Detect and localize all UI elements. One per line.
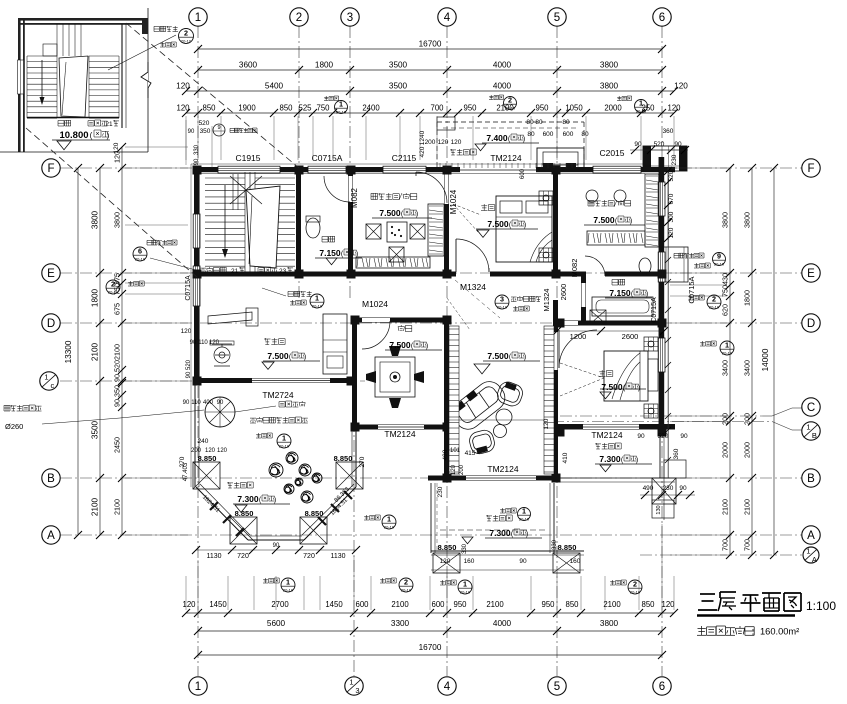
svg-text:600: 600 (520, 168, 526, 179)
dining door arc (362, 321, 390, 349)
bed 1 (496, 196, 552, 262)
svg-text:270: 270 (179, 456, 186, 467)
window left C0715A 2 (193, 266, 200, 306)
svg-text:600: 600 (431, 600, 445, 609)
svg-text:16700: 16700 (419, 643, 442, 652)
svg-text:3600: 3600 (239, 61, 258, 70)
svg-text:80: 80 (535, 119, 543, 126)
svg-text:3: 3 (500, 295, 504, 304)
bottom dimension detail row (186, 612, 674, 614)
svg-text:2000: 2000 (743, 442, 752, 458)
svg-text:1: 1 (195, 681, 201, 693)
svg-text:M1024: M1024 (449, 189, 458, 214)
svg-text:120: 120 (182, 600, 196, 609)
bedroom right wall V5 (553, 167, 558, 276)
svg-text:200: 200 (191, 448, 202, 454)
svg-text:750: 750 (316, 104, 330, 113)
svg-text:2: 2 (508, 96, 512, 105)
study chairs (366, 224, 381, 239)
svg-text:750: 750 (721, 285, 730, 297)
svg-text:1800: 1800 (91, 288, 100, 307)
svg-text:3800: 3800 (743, 212, 752, 228)
svg-text:850: 850 (641, 600, 655, 609)
svg-text:7.500: 7.500 (487, 219, 509, 229)
svg-text:330: 330 (194, 144, 200, 155)
svg-text:23: 23 (279, 268, 287, 275)
svg-text:90: 90 (637, 433, 645, 440)
corridor dashes (455, 280, 500, 318)
svg-text:90: 90 (113, 374, 122, 382)
svg-text:): ) (638, 385, 640, 392)
svg-text:3500: 3500 (389, 82, 408, 91)
svg-text:1: 1 (349, 678, 353, 687)
svg-text:3800: 3800 (721, 212, 730, 228)
exterior offset lines (191, 163, 643, 165)
bay sub dims (196, 549, 356, 551)
svg-text:): ) (426, 343, 428, 350)
living east wall V9 (553, 300, 558, 480)
washbasin box (590, 310, 606, 324)
svg-text:(: ( (90, 131, 93, 140)
plants terrace (269, 463, 283, 477)
svg-text:2100: 2100 (743, 499, 752, 515)
svg-text:B: B (47, 473, 55, 485)
svg-text:490: 490 (442, 449, 449, 460)
svg-text:20-10: 20-10 (384, 524, 395, 529)
bottom dimension total row (198, 654, 662, 656)
detail labels (58, 120, 71, 126)
svg-text:TM2724: TM2724 (262, 390, 293, 400)
center terrace boxes (433, 553, 460, 573)
left bubble cluster 2 (128, 281, 144, 286)
top axis circles (189, 8, 207, 26)
svg-text:1450: 1450 (325, 600, 343, 609)
svg-text:2: 2 (404, 578, 408, 587)
svg-text:3300: 3300 (391, 619, 410, 628)
svg-text:520: 520 (113, 360, 122, 372)
svg-text:E: E (47, 268, 55, 280)
svg-text:2100: 2100 (91, 497, 100, 516)
svg-text:7.500: 7.500 (601, 382, 623, 392)
bubble bathroom detail (495, 295, 509, 309)
bottom axis circles (189, 677, 207, 695)
right zone small boxes near B (652, 500, 674, 518)
svg-text:90: 90 (273, 543, 280, 549)
svg-text:TM2124: TM2124 (487, 464, 518, 474)
extra wall inner keylines F (194, 173, 645, 175)
bottom 详建施 clusters (440, 580, 456, 585)
svg-text:720: 720 (237, 553, 249, 560)
svg-text:): ) (523, 136, 525, 143)
svg-text:20-10: 20-10 (312, 303, 323, 308)
svg-text:850: 850 (565, 600, 579, 609)
door bedroom2 arc (559, 330, 597, 368)
right terrace edge (659, 433, 661, 478)
top dimension row spans (198, 69, 662, 71)
bathtub (592, 297, 653, 316)
svg-text:600: 600 (355, 600, 369, 609)
svg-text:3800: 3800 (600, 61, 619, 70)
svg-text:D: D (807, 318, 815, 330)
svg-text:7.300: 7.300 (599, 454, 621, 464)
svg-text:): ) (524, 354, 526, 361)
svg-text:2100: 2100 (91, 342, 100, 361)
svg-text:B: B (807, 473, 815, 485)
svg-text:20-10: 20-10 (630, 589, 641, 594)
toilet room label 7.150 (322, 236, 335, 242)
right window 1 (658, 182, 665, 216)
svg-text:M1324: M1324 (460, 282, 486, 292)
svg-text:1800: 1800 (315, 61, 334, 70)
bubbles left terrace (256, 433, 272, 438)
stools (586, 190, 598, 202)
svg-text:20-10: 20-10 (401, 587, 412, 592)
svg-text:4000: 4000 (493, 61, 512, 70)
detail arrow (41, 60, 43, 102)
right dimension columns (729, 168, 731, 555)
svg-text:1800: 1800 (743, 290, 752, 306)
plan stair upper X cross (230, 176, 262, 204)
svg-text:20-10: 20-10 (636, 108, 647, 113)
svg-text:C2115: C2115 (392, 153, 417, 163)
bathroom label (612, 279, 625, 285)
detail cut polygon (59, 56, 88, 117)
study table (387, 222, 407, 242)
svg-text:2: 2 (296, 12, 302, 24)
svg-text:1: 1 (387, 515, 391, 524)
svg-text:3400: 3400 (743, 360, 752, 376)
svg-text:F: F (47, 163, 54, 175)
svg-text:M1324: M1324 (542, 289, 551, 312)
svg-text:TM2124: TM2124 (591, 430, 622, 440)
octagon left slant (196, 487, 248, 540)
bay window on F axis4-5 (537, 148, 584, 169)
terrace labels (227, 482, 253, 488)
svg-text:240: 240 (198, 438, 209, 445)
svg-text:): ) (107, 131, 110, 140)
svg-text:1: 1 (806, 547, 810, 556)
svg-text:2000: 2000 (721, 442, 730, 458)
svg-text:7.500: 7.500 (593, 215, 615, 225)
window left C0715A (193, 214, 200, 248)
svg-text:8.850: 8.850 (558, 543, 577, 552)
toilet-study wall V3 (348, 167, 353, 276)
detail inner wall right (121, 24, 123, 128)
svg-text:c: c (51, 381, 55, 390)
svg-text:B: B (812, 431, 817, 440)
right terrace B edge (560, 477, 675, 479)
dining chairs dark (389, 346, 401, 356)
svg-text:C0715A: C0715A (312, 153, 343, 163)
svg-text:120: 120 (667, 104, 681, 113)
svg-text:4: 4 (444, 681, 451, 693)
svg-text:20-10: 20-10 (722, 350, 733, 355)
title big: san ceng ping mian tu (700, 593, 715, 595)
svg-text:950: 950 (535, 104, 549, 113)
left bubble cluster lightning (147, 240, 177, 245)
svg-text:M082: M082 (350, 187, 359, 208)
svg-text:200: 200 (743, 413, 752, 425)
svg-text:2100: 2100 (486, 600, 504, 609)
svg-text:3: 3 (355, 686, 359, 695)
bedroom2 labels (599, 370, 613, 377)
svg-text:21: 21 (231, 268, 239, 275)
sofa set (447, 376, 525, 455)
dashed reference diagonals (126, 23, 299, 168)
bubble stair detail1 (288, 291, 312, 297)
dining table (375, 357, 415, 397)
svg-text:C0715A: C0715A (651, 297, 658, 323)
svg-text:120: 120 (438, 139, 449, 146)
wardrobe strip (428, 204, 444, 256)
treadmill horizontal (208, 308, 258, 326)
wall 1/B right terrace H6 (557, 424, 675, 430)
area note (697, 626, 754, 635)
svg-text:520: 520 (654, 141, 665, 148)
stair-toilet wall V2 (296, 167, 301, 276)
stair labels (200, 267, 226, 273)
dining left wall V7 (352, 318, 357, 430)
svg-text:TM2124: TM2124 (490, 153, 521, 163)
svg-text:8.850: 8.850 (438, 543, 457, 552)
decorative column note (4, 405, 42, 411)
svg-text:160.00m²: 160.00m² (760, 627, 799, 637)
corridor fan dash (447, 298, 470, 330)
svg-text:1: 1 (195, 12, 201, 24)
top dimension detail row (186, 112, 674, 114)
svg-text:80: 80 (581, 131, 589, 138)
svg-text:4: 4 (444, 12, 451, 24)
living elevation triangle (474, 364, 490, 374)
svg-text:1: 1 (463, 580, 467, 589)
svg-text:2450: 2450 (113, 437, 122, 453)
bookshelf (356, 257, 430, 268)
svg-text:7.150: 7.150 (319, 248, 341, 258)
svg-text:675: 675 (113, 303, 122, 315)
svg-text:A: A (807, 530, 815, 542)
svg-text:1: 1 (639, 99, 643, 108)
detail window left (18, 60, 24, 94)
svg-text:90: 90 (113, 399, 122, 407)
detail boundary lines (147, 8, 149, 152)
svg-text:2000: 2000 (604, 104, 622, 113)
svg-text:670: 670 (668, 193, 675, 204)
svg-text:120: 120 (451, 139, 462, 146)
svg-text:8.850: 8.850 (235, 509, 254, 518)
dining bottom wall H5 TM2124 (352, 425, 450, 430)
center terrace labels (486, 515, 512, 521)
svg-text:2100: 2100 (391, 600, 409, 609)
svg-text:1050: 1050 (565, 104, 583, 113)
svg-text:520: 520 (199, 120, 210, 127)
bedroom1 labels (481, 204, 495, 211)
svg-text:90: 90 (188, 129, 195, 135)
svg-text:1: 1 (44, 373, 48, 382)
bookshelf2 (587, 231, 645, 245)
door swing dashes (453, 204, 481, 215)
door M082 opening (349, 176, 353, 202)
bedroom2 west door opening (554, 332, 558, 370)
svg-text:1: 1 (806, 423, 810, 432)
svg-text:): ) (416, 211, 418, 218)
svg-text:8.850: 8.850 (305, 509, 324, 518)
svg-text:3400: 3400 (721, 360, 730, 376)
center terrace extra (436, 483, 438, 553)
door M1024 arc (416, 172, 447, 203)
svg-text:A: A (812, 555, 817, 564)
nightstands (539, 191, 553, 205)
water meter column (205, 397, 235, 427)
extra vertical dim line right of plan (667, 168, 669, 478)
svg-text:6: 6 (138, 247, 142, 256)
svg-text:90: 90 (519, 558, 527, 565)
svg-text:110: 110 (198, 340, 208, 346)
svg-text:2100: 2100 (113, 499, 122, 515)
svg-text:520: 520 (658, 433, 669, 440)
toilet fixture (306, 218, 320, 238)
svg-text:7.500: 7.500 (267, 351, 289, 361)
living bottom wall B H7 (428, 476, 560, 481)
fitness labels (264, 338, 285, 345)
axis grid lines (197, 26, 199, 676)
octagon bottom (248, 539, 304, 541)
svg-text:6: 6 (659, 12, 665, 24)
svg-text:600: 600 (543, 131, 554, 138)
svg-text:): ) (524, 222, 526, 229)
svg-text:120: 120 (661, 600, 675, 609)
svg-text:160: 160 (464, 558, 475, 565)
svg-text:520: 520 (668, 170, 675, 181)
top detail bubbles (324, 96, 339, 101)
svg-text:3800: 3800 (91, 210, 100, 229)
detail upper flight (57, 24, 81, 56)
top dimension row 16700 (198, 48, 662, 50)
left terrace edge (194, 385, 196, 487)
svg-text:90: 90 (190, 340, 197, 346)
svg-text:20-10: 20-10 (279, 443, 290, 448)
right window 3 (658, 338, 665, 372)
top dimension row 5400 (186, 90, 674, 92)
svg-text:3800: 3800 (113, 212, 122, 228)
svg-text:4000: 4000 (493, 82, 512, 91)
svg-text:6: 6 (659, 681, 665, 693)
study labels (371, 193, 399, 200)
svg-text:400: 400 (203, 400, 214, 406)
svg-text:14000: 14000 (761, 348, 770, 371)
svg-text:120: 120 (176, 82, 190, 91)
svg-text:D: D (47, 318, 55, 330)
svg-text:2400: 2400 (362, 104, 380, 113)
svg-text:350: 350 (200, 128, 211, 135)
svg-text:1: 1 (725, 341, 729, 350)
right terrace boxes (652, 478, 676, 504)
svg-text:350: 350 (113, 385, 122, 397)
witness lines top (185, 116, 187, 160)
svg-text:700: 700 (430, 104, 444, 113)
center terrace edges (430, 483, 432, 553)
detail break zigzag (141, 62, 151, 98)
svg-text:90: 90 (674, 141, 682, 148)
svg-text:1130: 1130 (206, 553, 221, 560)
exterior wall F (194, 167, 675, 172)
svg-text:4000: 4000 (493, 619, 512, 628)
svg-text:200: 200 (721, 413, 730, 425)
svg-text:3500: 3500 (91, 420, 100, 439)
witness lines bottom (185, 576, 187, 610)
svg-text:): ) (646, 291, 648, 298)
study2 labels (588, 200, 614, 206)
fitness room bottom wall H4 TM2724 (194, 378, 355, 383)
svg-text:120: 120 (543, 418, 550, 429)
leader line (262, 288, 286, 296)
leader to bubble2 (108, 35, 176, 70)
svg-text:950: 950 (463, 104, 477, 113)
svg-text:120: 120 (205, 448, 216, 454)
ladder strips living walls (449, 326, 554, 474)
svg-text:525: 525 (298, 104, 312, 113)
svg-text:1: 1 (339, 100, 343, 109)
svg-text:120: 120 (209, 340, 220, 346)
water meter labels (279, 401, 305, 407)
svg-text:7.500: 7.500 (389, 340, 411, 350)
detail top-right corner wall (142, 18, 148, 34)
bed 2 (604, 351, 648, 401)
svg-text:3800: 3800 (600, 619, 619, 628)
svg-text:120: 120 (181, 328, 192, 335)
svg-text:1: 1 (522, 507, 526, 516)
svg-text:850: 850 (202, 104, 216, 113)
door opening TM2124 top (460, 167, 536, 173)
svg-text:C: C (807, 402, 815, 414)
svg-text:8.850: 8.850 (334, 454, 353, 463)
left exterior wall (194, 167, 199, 385)
svg-text:9: 9 (217, 125, 220, 131)
svg-text:230: 230 (437, 486, 444, 497)
svg-text:120: 120 (217, 448, 228, 454)
window C1915 (218, 166, 280, 173)
detail top wall (18, 18, 148, 21)
svg-text:：: ： (751, 628, 759, 637)
nightstand2 (644, 404, 658, 418)
svg-text:20-10: 20-10 (519, 516, 530, 521)
left dimension columns (77, 168, 79, 535)
svg-text:8.850: 8.850 (198, 454, 217, 463)
svg-text:20-10: 20-10 (283, 587, 294, 592)
svg-text:): ) (304, 354, 306, 361)
svg-text:200: 200 (459, 464, 465, 475)
svg-text:2600: 2600 (559, 284, 568, 301)
svg-text:): ) (636, 457, 638, 464)
svg-text:5: 5 (554, 12, 560, 24)
svg-text:2: 2 (184, 29, 188, 38)
svg-text:20-10: 20-10 (709, 304, 720, 309)
svg-text:90: 90 (679, 485, 687, 492)
svg-text:1450: 1450 (209, 600, 227, 609)
wardrobe2 (645, 174, 659, 247)
svg-text:120: 120 (440, 558, 451, 565)
svg-text:20-10: 20-10 (108, 289, 119, 294)
svg-text:430: 430 (721, 273, 730, 285)
svg-text:330: 330 (552, 539, 558, 550)
column blocks (193, 166, 202, 175)
svg-text:80: 80 (526, 119, 534, 126)
elevation label underlines (372, 217, 432, 219)
svg-text:490: 490 (643, 485, 654, 492)
svg-text:110: 110 (191, 400, 201, 406)
svg-text:90: 90 (680, 433, 688, 440)
svg-text:20-10: 20-10 (497, 304, 508, 309)
octagon right vertical (355, 430, 357, 487)
